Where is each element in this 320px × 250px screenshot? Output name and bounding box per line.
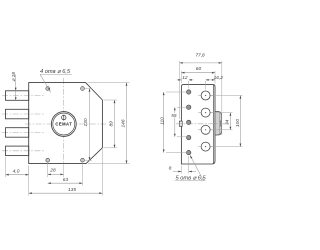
dimension 146 label — [120, 119, 126, 127]
dimension 60 label — [196, 66, 202, 72]
dimension 28 extension right (centerline) — [63, 168, 65, 177]
dimension 89 label — [108, 121, 114, 127]
dimension 28 extension left — [47, 163, 49, 177]
dimension 146 extension bottom — [88, 163, 130, 165]
dimension 100 label — [235, 119, 241, 127]
dimension 130 label — [83, 118, 89, 126]
dimension 146 extension top — [88, 82, 130, 84]
dimension 110 label — [159, 117, 165, 125]
svg-text:CEMAT: CEMAT — [55, 122, 72, 127]
svg-text:135: 135 — [68, 187, 76, 193]
dimension 135 line — [29, 192, 103, 194]
bolt 4 — [6, 146, 29, 156]
dimension 4,0 extension left — [5, 157, 7, 177]
screw hole 2 — [187, 105, 191, 109]
dimension 130 line — [89, 89, 91, 161]
bolt end circle 2 — [198, 108, 213, 117]
keyhole — [62, 115, 66, 121]
bolt 2 — [6, 109, 29, 119]
svg-text:34: 34 — [224, 119, 230, 125]
leader arrow to screw hole 5 — [190, 155, 204, 180]
dimension 8 extension right — [188, 156, 190, 174]
escutcheon outer circle — [51, 112, 76, 137]
dimension 100 line — [240, 96, 242, 147]
centerline bolt 2 — [2, 113, 44, 115]
svg-text:4,0: 4,0 — [13, 168, 20, 174]
svg-text:60: 60 — [196, 66, 202, 72]
dimension 63 label — [63, 177, 69, 183]
dimension 12 label — [182, 75, 188, 81]
dimension 89 extension bottom — [104, 147, 118, 149]
dimension 55 extension top — [177, 106, 186, 108]
dimension 60 line — [181, 72, 215, 74]
dimension 110 extension bottom — [166, 152, 186, 154]
dimension 55 line — [174, 107, 176, 137]
svg-text:89: 89 — [108, 121, 114, 127]
dimension 16,2 line — [206, 79, 215, 81]
screw hole 1 — [187, 90, 191, 94]
lock body outline — [29, 83, 103, 164]
dimension 8 label — [169, 165, 172, 171]
svg-text:146: 146 — [120, 119, 126, 127]
label 4 holes dia 6.5 — [40, 69, 72, 75]
centerline bolt 4 — [2, 150, 44, 152]
dimension 12 line — [177, 79, 194, 81]
svg-text:16,2: 16,2 — [214, 75, 224, 81]
dimension 130 extension top — [85, 88, 92, 90]
mounting hole top-right — [81, 87, 85, 91]
dimension 135 label — [68, 187, 76, 193]
dimension 100 extension bottom — [211, 146, 243, 148]
dimension 4,0 extension right — [28, 166, 30, 178]
dimension 77,8 extension left — [179, 61, 181, 119]
dimension 34 extension top — [211, 112, 233, 114]
dimension dia 18 line — [15, 75, 17, 101]
bolt end circle 1 — [198, 91, 213, 100]
back plate outline — [181, 85, 215, 164]
dimension 16,2 label — [214, 75, 224, 81]
faceplate notch — [179, 121, 182, 126]
dimension 8 line — [173, 171, 196, 173]
centerline bolt 1 — [2, 95, 44, 97]
dimension 28 line — [48, 174, 64, 176]
dimension 135 extension left — [28, 166, 30, 196]
dimension 55 extension bottom — [177, 136, 186, 138]
label 5 holes dia 6,5 — [175, 176, 207, 182]
dimension 4,0 label — [13, 168, 20, 174]
mounting hole bottom-left — [46, 158, 50, 162]
CEMAT brand text — [55, 122, 72, 127]
horizontal centerline of cylinder — [176, 123, 228, 125]
dimension 110 extension top — [166, 91, 186, 93]
dimension 77,8 line — [180, 62, 222, 64]
dimension 55 label — [171, 113, 178, 119]
dimension 60 extension right — [214, 71, 216, 84]
dimension 60 extension left — [180, 71, 182, 84]
dimension 16,2 extension — [205, 81, 207, 90]
bolt 1 — [6, 91, 29, 101]
dimension 8 extension left — [180, 166, 182, 174]
dimension dia 18 label — [11, 72, 17, 82]
dimension 4,0 line — [6, 174, 29, 176]
dimension 89 line — [114, 100, 116, 148]
dimension 63 line — [48, 182, 83, 184]
svg-text:12: 12 — [182, 75, 188, 81]
leader arrow to top-left hole — [40, 74, 51, 92]
dimension 100 extension top — [211, 95, 243, 97]
dimension 146 line — [126, 83, 128, 164]
dimension 89 extension top — [104, 99, 118, 101]
dimension 34 line — [230, 113, 232, 130]
dimension 34 extension bottom — [211, 129, 233, 131]
screw hole 4 — [187, 135, 191, 139]
svg-text:130: 130 — [83, 118, 89, 126]
svg-text:77,8: 77,8 — [195, 53, 205, 59]
bolt end circle 3 — [198, 125, 213, 134]
vertical centerline of escutcheon — [63, 78, 65, 168]
dimension 28 label — [49, 168, 56, 174]
dimension 77,8 extension right — [221, 61, 223, 135]
dimension 12 extension — [188, 81, 190, 89]
dimension 34 label — [224, 119, 230, 125]
svg-text:8: 8 — [169, 165, 172, 171]
dimension 63 extension right — [82, 163, 84, 186]
centerline bolt 3 — [2, 131, 44, 133]
screw hole 3 — [187, 120, 191, 124]
dimension 110 line — [163, 92, 165, 153]
escutcheon inner circle — [53, 113, 75, 135]
plate fold line — [212, 85, 214, 164]
mounting hole top-left — [46, 87, 50, 91]
dimension 130 extension bottom — [85, 159, 92, 161]
bolt 3 — [6, 128, 29, 138]
svg-text:63: 63 — [63, 177, 69, 183]
bolt end circle 4 — [198, 142, 213, 151]
svg-text:28: 28 — [49, 168, 56, 174]
mounting hole bottom-right — [81, 158, 85, 162]
screw hole 5 — [187, 150, 191, 154]
dimension 77,8 label — [195, 53, 205, 59]
horizontal centerline of escutcheon — [25, 123, 106, 125]
cylinder housing bump — [215, 112, 222, 136]
svg-text:100: 100 — [235, 119, 241, 127]
svg-text:55: 55 — [171, 113, 177, 119]
dimension 135 extension right — [101, 150, 103, 196]
svg-text:110: 110 — [159, 117, 165, 125]
